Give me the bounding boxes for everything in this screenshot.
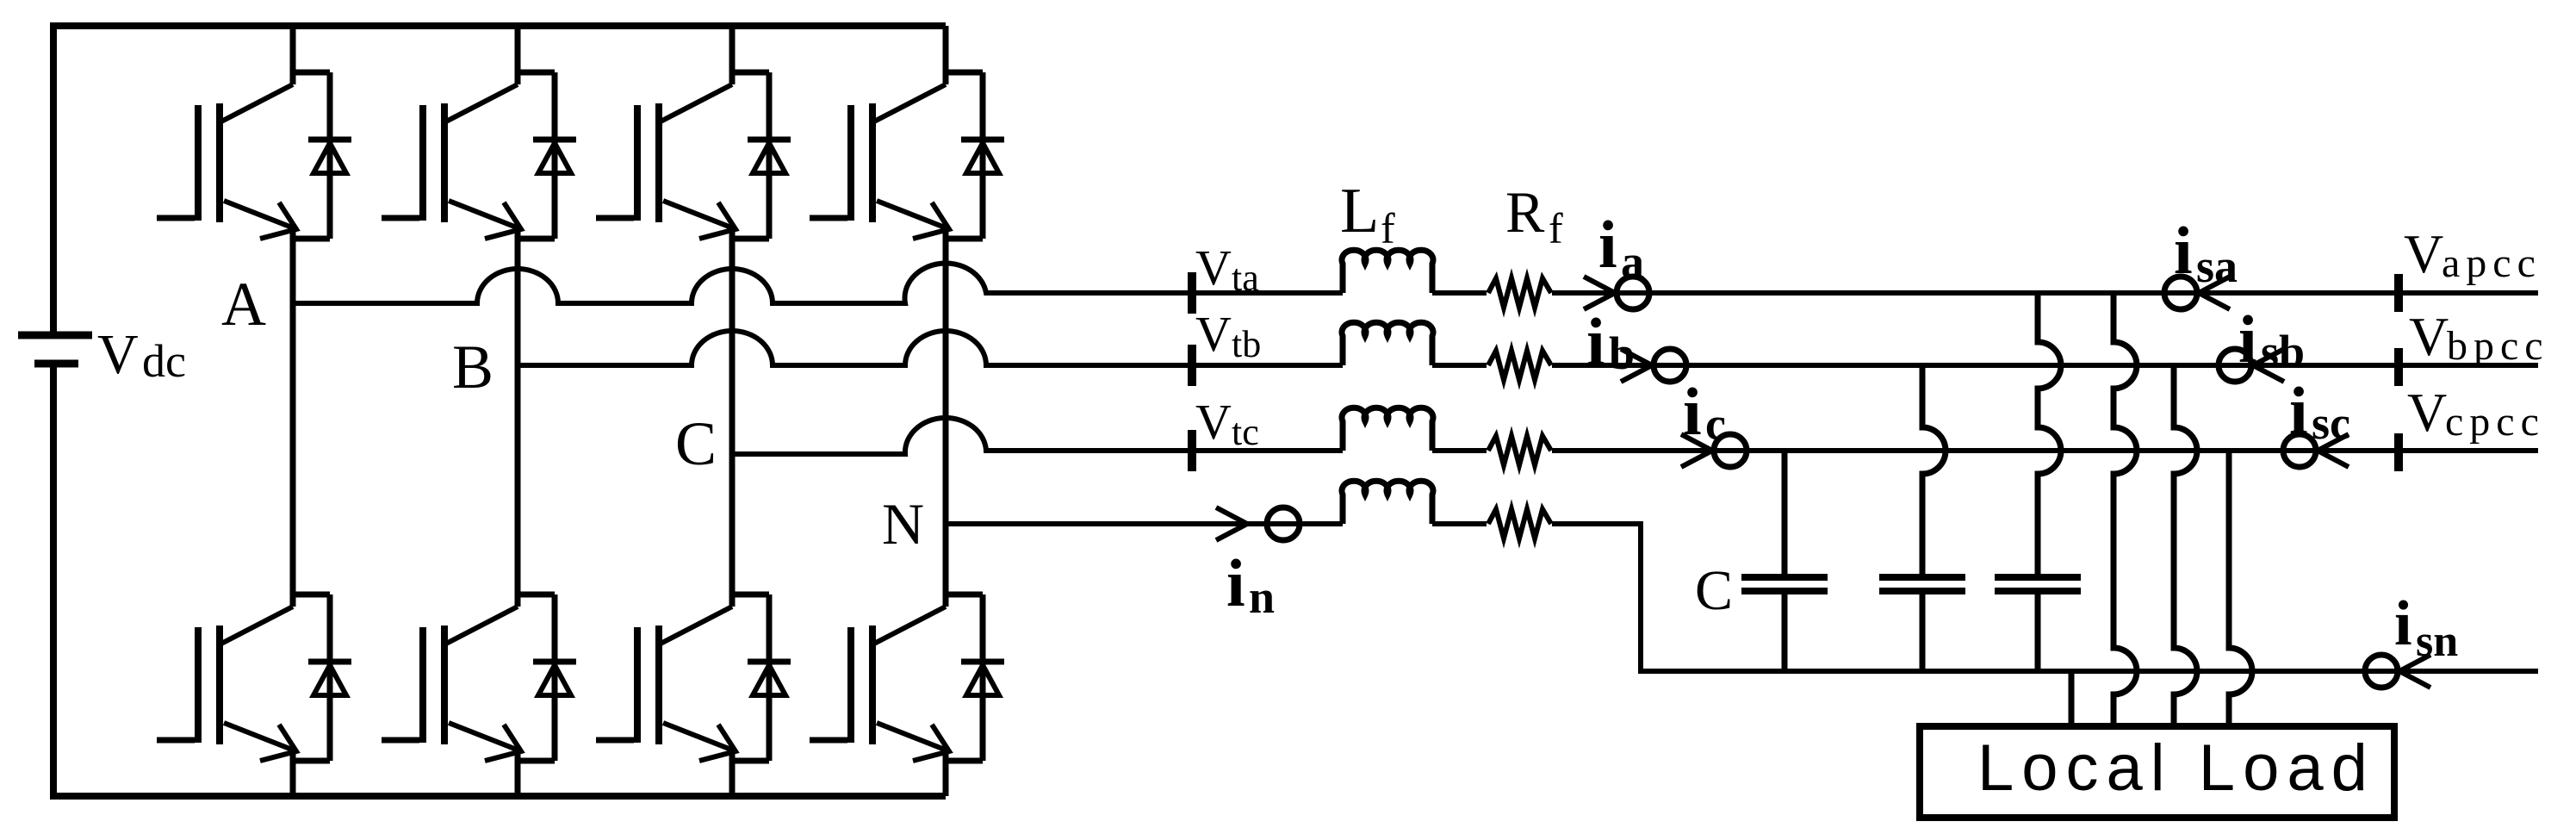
svg-text:dc: dc [142,335,186,387]
svg-text:V: V [2404,223,2443,284]
svg-text:n: n [1249,571,1275,623]
svg-text:cpcc: cpcc [2445,399,2545,445]
svg-text:tb: tb [1232,323,1261,365]
svg-text:N: N [882,491,924,557]
svg-text:L: L [1340,176,1379,246]
svg-text:sb: sb [2261,326,2305,377]
svg-text:sn: sn [2416,617,2458,666]
svg-text:C: C [1695,559,1733,622]
svg-text:sc: sc [2312,397,2350,449]
svg-text:apcc: apcc [2442,240,2542,286]
svg-text:V: V [2407,382,2447,443]
svg-text:sa: sa [2196,240,2238,292]
svg-text:A: A [221,270,266,339]
svg-text:bpcc: bpcc [2447,323,2549,369]
svg-text:i: i [2289,373,2308,448]
svg-text:tc: tc [1232,411,1259,453]
svg-text:Local Load: Local Load [1977,731,2375,805]
svg-text:i: i [1226,545,1245,620]
svg-text:i: i [1683,374,1702,449]
svg-text:R: R [1505,179,1545,245]
svg-text:c: c [1705,398,1726,450]
svg-text:ta: ta [1232,257,1259,299]
svg-text:V: V [1195,306,1232,362]
svg-text:V: V [2409,306,2449,367]
svg-text:i: i [1598,207,1617,282]
svg-text:B: B [452,333,493,401]
svg-text:a: a [1621,236,1644,288]
svg-text:b: b [1609,327,1635,379]
svg-text:i: i [1586,304,1605,379]
svg-text:i: i [2174,213,2193,288]
svg-text:V: V [97,323,139,386]
svg-text:V: V [1195,394,1232,450]
svg-text:i: i [2394,588,2412,659]
svg-text:C: C [675,409,717,478]
svg-text:f: f [1549,204,1563,252]
svg-text:i: i [2238,302,2257,377]
svg-text:V: V [1195,240,1232,296]
svg-text:f: f [1381,204,1395,252]
